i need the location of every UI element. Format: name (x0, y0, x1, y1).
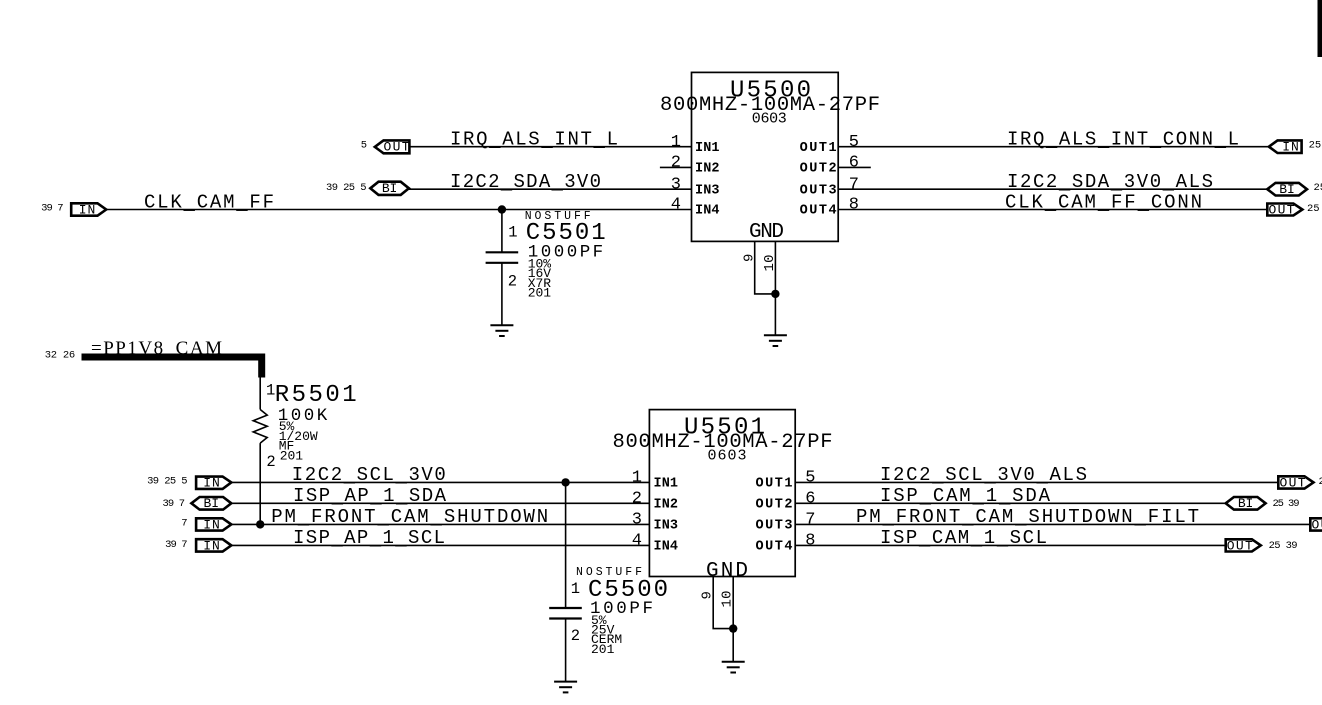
svg-text:5: 5 (361, 140, 367, 152)
svg-text:ISP_AP_1_SDA: ISP_AP_1_SDA (293, 485, 447, 509)
port connector OUT (right, CLK_CAM_FF_CONN) (1267, 204, 1302, 216)
svg-text:39 7: 39 7 (41, 203, 64, 215)
svg-text:IRQ_ALS_INT_CONN_L: IRQ_ALS_INT_CONN_L (1007, 129, 1239, 153)
junction on PM_FRONT_CAM_SHUTDOWN (R5501 tap) (256, 520, 264, 528)
svg-text:7: 7 (181, 518, 187, 530)
svg-text:PM_FRONT_CAM_SHUTDOWN: PM_FRONT_CAM_SHUTDOWN (271, 506, 548, 530)
wire net ISP_AP_1_SCL (pin 4) (232, 544, 649, 546)
svg-text:IN2: IN2 (654, 498, 679, 513)
resistor R5501 (259, 378, 261, 410)
svg-text:32 26: 32 26 (45, 350, 76, 362)
svg-text:GND: GND (749, 221, 784, 244)
port connector IN (left, CLK_CAM_FF) (71, 203, 106, 215)
svg-text:39 7: 39 7 (163, 498, 186, 510)
port connector IN (right, IRQ_ALS_INT_CONN_L) (1269, 140, 1302, 153)
svg-text:BI: BI (382, 181, 398, 196)
svg-text:OUT4: OUT4 (800, 204, 837, 219)
svg-text:2: 2 (632, 490, 642, 509)
svg-text:2: 2 (671, 154, 681, 173)
wire net CLK_CAM_FF_CONN (pin 8) (838, 209, 1267, 211)
svg-text:1: 1 (632, 469, 642, 488)
svg-text:5: 5 (805, 469, 815, 488)
svg-text:I2C2_SDA_3V0: I2C2_SDA_3V0 (450, 171, 601, 195)
U5500 GND pin 9 wire (755, 241, 776, 294)
svg-text:39 25 5: 39 25 5 (326, 182, 367, 194)
svg-text:25: 25 (1319, 476, 1322, 488)
svg-text:25: 25 (1314, 182, 1322, 194)
svg-text:=PP1V8_CAM: =PP1V8_CAM (91, 338, 222, 359)
svg-text:39 25 5: 39 25 5 (147, 475, 188, 487)
svg-text:25 39: 25 39 (1273, 498, 1300, 510)
svg-text:R5501: R5501 (275, 382, 357, 409)
capacitor C5501 plates (486, 251, 519, 253)
wire net PM_FRONT_CAM_SHUTDOWN (pin 3) (232, 523, 649, 525)
svg-text:IN2: IN2 (695, 162, 720, 177)
svg-text:IN4: IN4 (695, 204, 720, 219)
port connector IN (left, ISP_AP_1_SCL) (196, 539, 231, 551)
svg-text:7: 7 (805, 511, 815, 530)
port connector OUT (left, IRQ_ALS_INT_L) (375, 140, 410, 153)
U5501 GND pin 10 wire (732, 577, 734, 662)
svg-text:1: 1 (671, 133, 681, 152)
wire net CLK_CAM_FF (pin 4) (106, 209, 691, 211)
svg-text:OUT2: OUT2 (756, 498, 793, 513)
svg-text:IN3: IN3 (695, 183, 720, 198)
svg-text:IN: IN (203, 475, 220, 490)
svg-text:6: 6 (849, 154, 859, 173)
sheet border bar top-right (1318, 0, 1322, 57)
svg-text:39 7: 39 7 (165, 539, 188, 551)
wire net ISP_CAM_1_SDA (pin 6) (795, 502, 1225, 504)
junction on CLK_CAM_FF (498, 205, 506, 213)
svg-text:GND: GND (706, 560, 748, 583)
wire net IRQ_ALS_INT_CONN_L (pin 5) (838, 146, 1269, 148)
svg-text:2: 2 (571, 627, 580, 645)
svg-text:IN: IN (79, 202, 96, 217)
svg-text:IN: IN (203, 517, 220, 532)
svg-text:ISP_CAM_1_SDA: ISP_CAM_1_SDA (880, 485, 1051, 509)
svg-text:BI: BI (204, 496, 220, 511)
junction GND pins (729, 624, 737, 632)
svg-text:OUT1: OUT1 (756, 477, 793, 492)
svg-text:BI: BI (1238, 496, 1254, 511)
svg-text:OUT4: OUT4 (756, 540, 793, 555)
IC U5501 body (649, 410, 795, 577)
wire capacitor branch (501, 210, 503, 253)
svg-text:0603: 0603 (752, 111, 787, 128)
wire capacitor branch C5500 (565, 482, 567, 607)
svg-text:OUT1: OUT1 (800, 141, 837, 156)
wire below C5501 (501, 263, 503, 325)
wire net I2C2_SCL_3V0_ALS (pin 5) (795, 481, 1278, 483)
port connector OUT (right, PM_FRONT_CAM_SHUTDOWN_FILT, clipped) (1310, 518, 1322, 530)
svg-text:25: 25 (1309, 140, 1322, 152)
port connector BI (left, ISP_AP_1_SDA) (191, 497, 231, 510)
svg-text:OUT: OUT (1280, 475, 1306, 490)
svg-text:201: 201 (280, 448, 304, 463)
svg-text:201: 201 (591, 642, 615, 657)
svg-text:3: 3 (671, 175, 681, 194)
IC U5500 body (692, 72, 839, 241)
wire net IRQ_ALS_INT_L (pin 1) (409, 146, 691, 148)
ground below U5501 (722, 662, 745, 673)
junction on I2C2_SCL_3V0 (561, 478, 569, 486)
svg-text:3: 3 (632, 511, 642, 530)
svg-text:IN4: IN4 (654, 540, 679, 555)
svg-text:7: 7 (849, 175, 859, 194)
svg-text:25: 25 (1307, 203, 1320, 215)
svg-text:BI: BI (1279, 182, 1295, 197)
svg-text:OUT3: OUT3 (800, 183, 837, 198)
port connector BI (left, I2C2_SDA_3V0) (370, 182, 409, 195)
svg-text:2: 2 (266, 453, 275, 471)
svg-text:OUT2: OUT2 (800, 162, 837, 177)
svg-text:8: 8 (849, 196, 859, 215)
svg-text:1: 1 (571, 580, 580, 598)
wire net I2C2_SDA_3V0_ALS (pin 7) (838, 188, 1267, 190)
svg-text:8: 8 (805, 532, 815, 551)
wire net I2C2_SDA_3V0 (pin 3) (408, 188, 691, 190)
wire net I2C2_SCL_3V0 (pin 1) (231, 481, 649, 483)
wire net ISP_AP_1_SDA (pin 2) (231, 502, 649, 504)
svg-text:IN: IN (1282, 140, 1299, 155)
wire stub pin 6 (838, 166, 871, 168)
svg-text:CLK_CAM_FF: CLK_CAM_FF (144, 191, 274, 215)
svg-text:IN1: IN1 (695, 141, 720, 156)
U5500 GND pin 10 wire (774, 241, 776, 335)
svg-text:CLK_CAM_FF_CONN: CLK_CAM_FF_CONN (1005, 191, 1202, 215)
svg-text:5: 5 (849, 133, 859, 152)
port connector IN (left, PM_FRONT_CAM_SHUTDOWN) (196, 518, 231, 530)
wire below C5500 (565, 619, 567, 682)
ground below U5500 (764, 335, 787, 346)
junction GND pins (771, 290, 779, 298)
wire net ISP_CAM_1_SCL (pin 8) (795, 544, 1225, 546)
port connector OUT (right, I2C2_SCL_3V0_ALS) (1278, 476, 1313, 488)
port connector BI (right, ISP_CAM_1_SDA) (1226, 497, 1266, 510)
svg-text:0603: 0603 (708, 448, 747, 465)
svg-text:25 39: 25 39 (1269, 540, 1298, 552)
svg-text:6: 6 (805, 490, 815, 509)
svg-text:4: 4 (671, 196, 681, 215)
svg-text:ISP_AP_1_SCL: ISP_AP_1_SCL (293, 527, 445, 551)
svg-text:ISP_CAM_1_SCL: ISP_CAM_1_SCL (880, 527, 1047, 551)
svg-text:1: 1 (508, 224, 517, 242)
port connector OUT (right, ISP_CAM_1_SCL) (1226, 539, 1261, 551)
svg-text:OUT: OUT (1312, 517, 1322, 532)
svg-text:OUT: OUT (1227, 538, 1253, 553)
port connector IN (left, I2C2_SCL_3V0) (196, 477, 231, 489)
wire stub pin 2 (660, 166, 692, 168)
svg-text:OUT: OUT (384, 140, 410, 155)
svg-text:4: 4 (632, 532, 642, 551)
ground below C5500 (554, 682, 577, 693)
svg-text:2: 2 (508, 272, 517, 290)
svg-text:OUT: OUT (1269, 202, 1295, 217)
wire net PM_FRONT_CAM_SHUTDOWN_FILT (pin 7) (795, 523, 1310, 525)
svg-text:OUT3: OUT3 (756, 519, 793, 534)
svg-text:IRQ_ALS_INT_L: IRQ_ALS_INT_L (450, 129, 618, 153)
capacitor C5500 plates (549, 607, 582, 609)
power rail =PP1V8_CAM (82, 354, 266, 378)
ground below C5501 (490, 325, 513, 336)
svg-text:IN3: IN3 (654, 519, 679, 534)
port connector BI (right, I2C2_SDA_3V0_ALS) (1267, 183, 1307, 196)
svg-text:201: 201 (528, 286, 552, 301)
U5501 GND pin 9 wire (713, 577, 733, 629)
svg-text:IN: IN (203, 538, 220, 553)
svg-text:IN1: IN1 (654, 477, 679, 492)
